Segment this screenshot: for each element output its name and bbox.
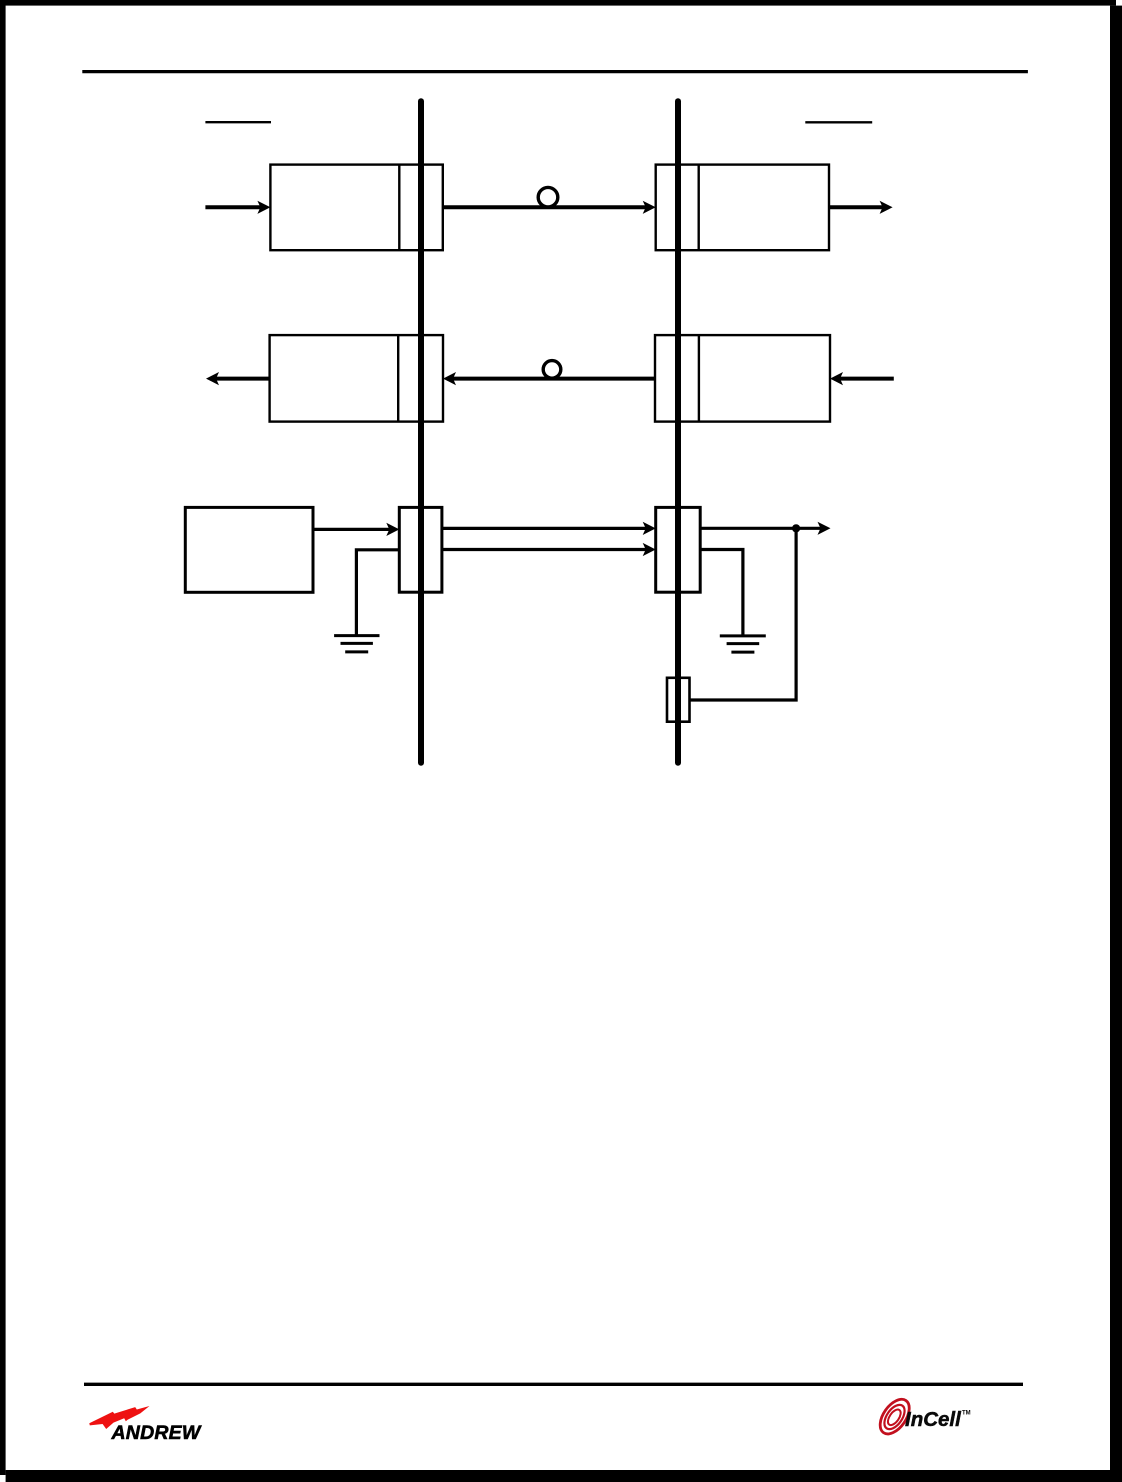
- label dash left: [205, 121, 271, 123]
- header rule: [82, 70, 1028, 73]
- row1 right box: [656, 165, 829, 251]
- row3 left coupler rect: [399, 507, 442, 592]
- page border bottom band: [6, 1470, 1122, 1482]
- detector rect on right bus: [667, 678, 690, 722]
- row1 mid arrow: [443, 201, 656, 214]
- InCell logo rings: [874, 1394, 915, 1439]
- left ground symbol: [334, 636, 379, 652]
- row1 left box divider: [398, 165, 400, 251]
- svg-text:TM: TM: [962, 1411, 971, 1417]
- row3 right coupler rect: [656, 507, 701, 592]
- row1 circulator circle: [538, 187, 558, 207]
- row3 wire coupler to junction: [700, 527, 796, 530]
- row3 controller box: [185, 507, 313, 592]
- row3 arrow controller to left coupler: [313, 523, 399, 536]
- feedback wire junction down and left: [690, 528, 797, 700]
- junction dot: [792, 524, 800, 532]
- row2 input arrow (leftward): [830, 372, 894, 385]
- row3 right ground wire: [700, 550, 743, 636]
- svg-text:ANDREW: ANDREW: [111, 1422, 202, 1444]
- row3 lower rail arrow between couplers: [442, 543, 656, 556]
- row1 left box: [270, 165, 442, 251]
- right ground symbol: [720, 636, 766, 652]
- ANDREW logo lightning bolt: [89, 1406, 149, 1429]
- label dash right: [805, 121, 872, 123]
- row2 circulator circle: [543, 361, 561, 379]
- row2 left box: [270, 335, 443, 422]
- footer rule: [84, 1383, 1023, 1386]
- row3 left ground stub wire: [356, 550, 399, 636]
- row2 output arrow (leftward): [206, 372, 270, 385]
- page border top band: [0, 0, 1116, 6]
- row1 input arrow: [205, 201, 270, 214]
- row1 right box divider: [698, 165, 700, 251]
- row2 right box: [655, 335, 830, 422]
- row2 mid arrow (leftward): [443, 372, 655, 385]
- row3 output arrow after junction: [796, 522, 830, 535]
- page border left band: [0, 0, 6, 1475]
- row1 output arrow: [829, 201, 893, 214]
- row2 left box divider: [397, 335, 399, 422]
- right bus bar: [675, 101, 681, 763]
- row2 right box divider: [698, 335, 700, 422]
- page border right band: [1110, 6, 1122, 1482]
- svg-text:InCell: InCell: [905, 1408, 962, 1431]
- row3 upper rail arrow between couplers: [442, 522, 656, 535]
- left bus bar: [418, 101, 424, 763]
